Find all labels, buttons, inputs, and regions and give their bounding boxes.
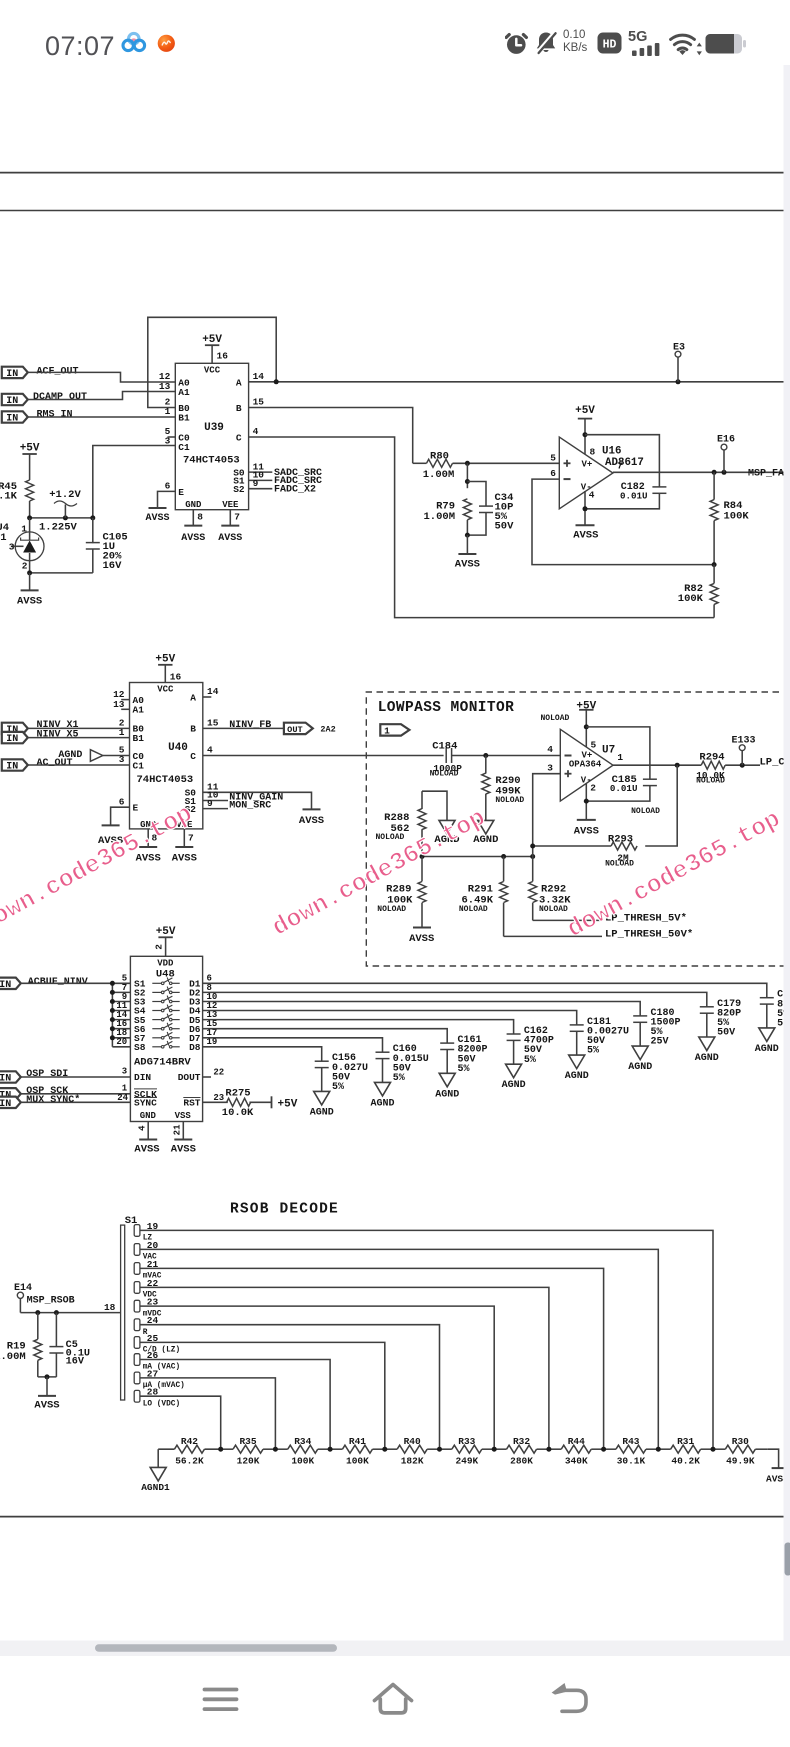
- status bar HD icon: [597, 32, 622, 54]
- svg-text:GND: GND: [140, 1111, 157, 1121]
- svg-text:1: 1: [0, 532, 6, 544]
- svg-text:13: 13: [113, 699, 125, 710]
- svg-text:15: 15: [253, 397, 265, 408]
- svg-text:+1.2V: +1.2V: [49, 489, 81, 501]
- svg-text:AVSS: AVSS: [299, 815, 324, 827]
- svg-text:LP_C: LP_C: [760, 756, 786, 768]
- svg-text:AGND: AGND: [565, 1071, 589, 1082]
- resistor R34: [275, 1448, 287, 1450]
- wire +5V to U48 pin 2 VDD: [165, 937, 167, 956]
- junction output to R293 feedback: [675, 763, 680, 768]
- svg-text:5%: 5%: [458, 1064, 470, 1075]
- vertical scrollbar: [785, 1543, 790, 1576]
- ground AGND below C181: [569, 1055, 585, 1069]
- status bar alarm icon: [505, 30, 529, 56]
- resistor R84: [713, 472, 715, 499]
- port IN RMS_IN: [2, 411, 28, 422]
- svg-text:30.1K: 30.1K: [617, 1455, 646, 1466]
- op IC U39 74HCT4053 body: [175, 363, 248, 509]
- svg-text:14: 14: [253, 371, 265, 382]
- svg-text:IN: IN: [0, 1074, 11, 1085]
- resistor R45: [26, 480, 34, 501]
- svg-text:RSOB DECODE: RSOB DECODE: [230, 1202, 339, 1218]
- connector S1 pin 27 µA (mVAC): [134, 1372, 140, 1384]
- svg-text:6: 6: [165, 480, 171, 491]
- ground AGND below C162: [506, 1064, 522, 1078]
- ground AVSS below R289: [413, 927, 431, 929]
- svg-text:20: 20: [116, 1037, 127, 1047]
- port IN AC_OUT: [2, 759, 28, 770]
- svg-text:74HCT4053: 74HCT4053: [137, 774, 194, 786]
- svg-text:B1: B1: [133, 733, 145, 744]
- junction divider node: [656, 1447, 661, 1452]
- switch IC U48 ADG714BRV body: [130, 956, 202, 1121]
- svg-text:25V: 25V: [651, 1037, 669, 1048]
- nav bar home icon: [372, 1681, 414, 1716]
- svg-text:9: 9: [253, 478, 259, 489]
- svg-text:+5V: +5V: [575, 405, 595, 417]
- svg-text:1: 1: [119, 727, 125, 738]
- capacitor C184: [445, 748, 447, 763]
- resistor R32: [494, 1448, 506, 1450]
- status bar time: [45, 31, 115, 62]
- test point E3: [676, 379, 681, 384]
- status bar orange app icon: [157, 34, 176, 53]
- junction divider node: [382, 1447, 387, 1452]
- horizontal scrollbar: [95, 1644, 337, 1651]
- pdf page right edge strip: [784, 65, 790, 1647]
- resistor R82: [713, 565, 715, 584]
- ground AVSS at U39 E: [149, 507, 167, 509]
- wire MUX_SYNC* to U48 pin 24 SYNC: [20, 1101, 131, 1103]
- connector S1 pin 23 mVDC: [134, 1300, 140, 1312]
- svg-text:3: 3: [122, 1067, 127, 1077]
- svg-text:2A2: 2A2: [320, 725, 335, 735]
- svg-text:49.9K: 49.9K: [726, 1455, 755, 1466]
- wire U40 pin 4 C output to lowpass monitor: [203, 755, 444, 757]
- svg-text:18: 18: [104, 1302, 116, 1313]
- junction output R84: [712, 470, 717, 475]
- svg-text:1.00M: 1.00M: [423, 511, 455, 523]
- U48 pin 22 DOUT stub: [203, 1076, 211, 1078]
- connector S1 pin 22 VDC: [134, 1282, 140, 1294]
- svg-text:A: A: [236, 377, 242, 388]
- resistor R31: [658, 1448, 670, 1450]
- wire U48 D output to C181: [203, 1011, 577, 1025]
- wire +5V to U7 pin 5: [585, 710, 587, 747]
- connector S1 body bar: [121, 1225, 125, 1400]
- port IN ACBUF_NINV: [0, 978, 21, 989]
- svg-text:LP_THRESH_50V*: LP_THRESH_50V*: [605, 928, 693, 940]
- port IN NINV_X5: [2, 732, 28, 743]
- junction divider node: [218, 1447, 223, 1452]
- svg-text:0.01U: 0.01U: [610, 783, 638, 794]
- svg-text:AVSS: AVSS: [171, 1144, 196, 1156]
- U39 pin 11 S0 stub and net SADC_SRC: [249, 471, 273, 473]
- wire S1 pin 19 to divider node: [140, 1230, 713, 1449]
- resistor R289: [421, 857, 423, 882]
- svg-text:NOLOAD: NOLOAD: [377, 905, 406, 914]
- svg-text:B: B: [236, 403, 242, 414]
- U39 pin 9 S2 stub and net FADC_X2: [249, 488, 273, 490]
- capacitor C105: [92, 518, 94, 543]
- schematic sheet inner border line: [0, 210, 784, 212]
- connector S1 pin 28 LO (VDC): [134, 1390, 140, 1402]
- wire U16 pin 4 V- to AVSS: [584, 491, 586, 525]
- wire net LP_THRESH_50V*: [504, 935, 602, 937]
- junction divider node: [328, 1447, 333, 1452]
- svg-text:U39: U39: [204, 422, 224, 434]
- svg-text:21: 21: [173, 1124, 183, 1135]
- svg-text:AVSS: AVSS: [455, 559, 480, 571]
- capacitor C156: [315, 1060, 329, 1062]
- status bar wifi icon: [668, 29, 704, 56]
- svg-text:R40: R40: [404, 1436, 421, 1447]
- S input bus vertical: [111, 983, 113, 1047]
- svg-text:R275: R275: [225, 1088, 250, 1100]
- svg-text:NOLOAD: NOLOAD: [459, 905, 488, 914]
- svg-text:5: 5: [591, 740, 597, 751]
- wire U48 D output to C160: [203, 1038, 383, 1052]
- op-amp U7 OPA364: [560, 729, 613, 801]
- ground AVSS below U4: [21, 589, 39, 591]
- wire U39 C output pin 4 to R82 bottom: [249, 437, 714, 618]
- wire U7 pin 3 + input: [533, 774, 561, 857]
- svg-text:AVSS: AVSS: [17, 595, 42, 607]
- svg-text:OUT: OUT: [287, 725, 302, 735]
- U40 pin 9 S2 net MON_SRC: [203, 808, 228, 810]
- svg-text:+5V: +5V: [202, 334, 222, 346]
- wire S1 pin 28 to divider node: [140, 1396, 221, 1449]
- svg-text:NOLOAD: NOLOAD: [375, 833, 404, 842]
- svg-text:9: 9: [207, 798, 213, 809]
- junction divider node: [711, 1447, 716, 1452]
- wire U48 pin 9 S3: [112, 1001, 130, 1003]
- svg-text:NOLOAD: NOLOAD: [541, 714, 570, 723]
- svg-text:R41: R41: [349, 1436, 366, 1447]
- svg-text:+5V: +5V: [156, 926, 176, 938]
- svg-text:8: 8: [197, 512, 203, 523]
- svg-text:R32: R32: [513, 1436, 530, 1447]
- wire +5V to R45: [29, 454, 31, 480]
- resistor R30: [713, 1448, 725, 1450]
- wire U39 A output pin 14 long net: [249, 381, 784, 383]
- ground AGND below C161: [439, 1073, 455, 1087]
- wire +5V to U39 pin 16: [211, 345, 213, 363]
- svg-text:AVSS: AVSS: [134, 1144, 159, 1156]
- wire U16 pin 6 - input feedback: [532, 479, 714, 564]
- wire S1 pin 25 to divider node: [140, 1342, 385, 1449]
- resistor R294: [701, 761, 725, 769]
- port IN OSP_SCK: [0, 1088, 21, 1099]
- svg-text:R42: R42: [181, 1436, 198, 1447]
- resistor R35: [221, 1448, 233, 1450]
- U40 pin 14 A stub: [203, 696, 211, 698]
- svg-text:AGND: AGND: [370, 1098, 394, 1109]
- wire R19 C5 to AVSS: [38, 1376, 57, 1378]
- wire S1 pin 21 to divider node: [140, 1268, 604, 1449]
- svg-text:4: 4: [253, 426, 259, 437]
- junction divider node: [273, 1447, 278, 1452]
- svg-text:2: 2: [590, 783, 596, 794]
- svg-text:6: 6: [119, 796, 125, 807]
- svg-text:AGND: AGND: [502, 1080, 526, 1091]
- capacitor C161: [440, 1042, 454, 1044]
- svg-text:U40: U40: [168, 742, 188, 754]
- svg-text:R35: R35: [239, 1436, 256, 1447]
- svg-text:AGND1: AGND1: [141, 1482, 170, 1493]
- svg-text:3: 3: [547, 763, 553, 774]
- svg-text:R33: R33: [458, 1436, 475, 1447]
- switch element S3-D3: [152, 1001, 161, 1003]
- svg-text:1.225V: 1.225V: [39, 522, 78, 534]
- schematic sheet bottom border line: [0, 1516, 784, 1518]
- svg-text:2: 2: [154, 944, 165, 950]
- svg-text:10.0K: 10.0K: [222, 1107, 254, 1119]
- junction R19: [35, 1310, 40, 1315]
- status bar network speed: [563, 29, 587, 54]
- svg-text:120K: 120K: [237, 1455, 260, 1466]
- svg-text:IN: IN: [6, 734, 18, 745]
- wire U48 D output to C180: [203, 1002, 641, 1016]
- switch element S2-D2: [152, 991, 161, 993]
- svg-text:40.2K: 40.2K: [671, 1455, 700, 1466]
- svg-text:VEE: VEE: [222, 500, 239, 510]
- svg-text:R34: R34: [294, 1436, 311, 1447]
- shunt reference U4 zener: [29, 518, 31, 540]
- svg-text:22: 22: [213, 1068, 224, 1078]
- svg-text:100K: 100K: [346, 1455, 369, 1466]
- junction R79 C34 bottom: [465, 533, 470, 538]
- svg-text:AVSS: AVSS: [34, 1400, 59, 1412]
- svg-text:16V: 16V: [103, 560, 123, 572]
- svg-text:OPA364: OPA364: [569, 760, 602, 770]
- svg-text:280K: 280K: [510, 1455, 533, 1466]
- ground AGND below C180: [632, 1046, 648, 1060]
- svg-text:4: 4: [547, 744, 553, 755]
- svg-text:1.00M: 1.00M: [0, 1351, 26, 1363]
- svg-text:V+: V+: [582, 750, 593, 760]
- capacitor C179: [700, 1006, 714, 1008]
- status bar 5G and signal bars: [628, 29, 647, 45]
- wire S1 pin 23 to divider node: [140, 1306, 494, 1449]
- svg-text:FADC_X2: FADC_X2: [274, 484, 316, 495]
- svg-text:GND: GND: [185, 500, 202, 510]
- ground AVSS at U40 S0: [303, 808, 321, 810]
- wire U48 pin 7 S2: [112, 991, 130, 993]
- svg-text:IN: IN: [0, 1099, 11, 1110]
- wire RMS_IN to U39 pin 1 B1: [28, 416, 176, 418]
- wire U48 pin 16 S6: [112, 1028, 130, 1030]
- junction C184 R290: [483, 753, 488, 758]
- ground AVSS below R19: [38, 1395, 56, 1397]
- svg-text:AVSS: AVSS: [574, 825, 599, 837]
- svg-text:R31: R31: [677, 1436, 694, 1447]
- junction A output to loop: [274, 379, 279, 384]
- svg-text:DOUT: DOUT: [178, 1072, 201, 1083]
- op-amp U16 AD8617: [559, 437, 613, 509]
- U39 pin 10 S1 stub and net FADC_SRC: [249, 479, 273, 481]
- switch element S5-D5: [152, 1019, 161, 1021]
- svg-text:R294: R294: [699, 751, 724, 763]
- capacitor C181: [570, 1024, 584, 1026]
- svg-text:U7: U7: [602, 745, 615, 757]
- port IN NINV_X1: [2, 723, 28, 734]
- status bar battery icon: [705, 33, 746, 55]
- resistor R41: [330, 1448, 342, 1450]
- svg-text:4: 4: [138, 1125, 148, 1131]
- svg-text:A: A: [190, 692, 196, 703]
- resistor R290: [485, 756, 487, 774]
- svg-text:NOLOAD: NOLOAD: [430, 770, 459, 779]
- wire U39 B output pin 15 to R80: [249, 408, 413, 464]
- svg-text:R44: R44: [568, 1436, 585, 1447]
- junction divider node: [437, 1447, 442, 1452]
- svg-text:B: B: [190, 724, 196, 735]
- wire U48 D output to C179: [203, 992, 707, 1006]
- wire U48 pin 18 S7: [112, 1037, 130, 1039]
- wire zener to AVSS and C105 bottom: [30, 572, 93, 574]
- svg-text:3: 3: [165, 435, 171, 446]
- svg-text:5%: 5%: [587, 1046, 599, 1057]
- svg-text:+5V: +5V: [20, 443, 40, 455]
- svg-text:MSP_FA: MSP_FA: [748, 469, 784, 480]
- capacitor C185 bypass loop: [586, 727, 650, 779]
- resistor R19: [37, 1313, 39, 1340]
- svg-text:NOLOAD: NOLOAD: [605, 859, 634, 868]
- wire U48 D output to C161: [203, 1029, 448, 1043]
- svg-text:4: 4: [207, 745, 213, 756]
- svg-text:1.00M: 1.00M: [423, 469, 455, 481]
- connector S1 pin 21 mVAC: [134, 1263, 140, 1275]
- resistor R44: [549, 1448, 561, 1450]
- switch element S6-D6: [152, 1028, 161, 1030]
- svg-text:3: 3: [119, 754, 125, 765]
- connector S1 pin 19 LZ: [134, 1225, 140, 1237]
- resistor R288: [422, 791, 447, 820]
- svg-text:3: 3: [9, 541, 15, 552]
- svg-text:NINV_FB: NINV_FB: [229, 720, 271, 731]
- svg-text:74HCT4053: 74HCT4053: [183, 455, 240, 467]
- svg-text:5%: 5%: [393, 1073, 405, 1084]
- svg-text:16: 16: [217, 351, 229, 362]
- svg-text:100K: 100K: [678, 593, 704, 605]
- wire threshold divider bus: [422, 856, 533, 858]
- test point E14: [17, 1292, 23, 1298]
- port IN DCAMP_OUT: [2, 394, 28, 405]
- power AGND arrow into U40 pin 5 C0: [90, 750, 102, 762]
- resistor R275: [227, 1098, 251, 1106]
- wire AC_OUT to U40 pin 3 C1: [28, 764, 130, 766]
- node 1.225V wire: [30, 517, 93, 519]
- svg-text:1: 1: [617, 752, 623, 763]
- wire U40 pin 15 B output NINV_FB: [203, 727, 284, 729]
- connector S1 pin 26 mA (VAC): [134, 1354, 140, 1366]
- lowpass monitor dashed box: [366, 692, 790, 966]
- svg-text:C1: C1: [133, 760, 145, 771]
- svg-text:AC_OUT: AC_OUT: [37, 758, 73, 769]
- svg-text:R43: R43: [622, 1436, 639, 1447]
- resistor R42: [158, 1448, 174, 1450]
- svg-text:IN: IN: [6, 414, 18, 425]
- svg-text:AVSS: AVSS: [573, 530, 598, 542]
- wire U48 pin 5 S1: [112, 982, 130, 984]
- svg-text:C: C: [236, 432, 242, 443]
- wire U7 pin 2 V- to AVSS: [585, 783, 587, 820]
- ground AGND below C156: [314, 1091, 330, 1105]
- port 1 sheet arrow: [380, 724, 409, 735]
- svg-text:14: 14: [207, 686, 219, 697]
- U40 pin 12 A0 stub: [121, 699, 129, 701]
- svg-text:AGND: AGND: [628, 1062, 652, 1073]
- svg-text:C: C: [190, 751, 196, 762]
- svg-text:+5V: +5V: [155, 654, 175, 666]
- wire R30 to AVSS: [768, 1449, 779, 1468]
- wire S1 pin 24 to divider node: [140, 1325, 440, 1450]
- switch element S8-D8: [152, 1046, 161, 1048]
- svg-text:182K: 182K: [401, 1455, 424, 1466]
- svg-text:0.01U: 0.01U: [620, 490, 648, 501]
- svg-text:R80: R80: [430, 451, 449, 463]
- ground AVSS below U16: [576, 524, 595, 526]
- connector S1 pin 24 R: [134, 1319, 140, 1331]
- wire U48 D output to C156: [203, 1047, 322, 1061]
- status bar muted bell icon: [533, 29, 559, 56]
- schematic sheet top border line: [0, 172, 784, 174]
- svg-text:50V: 50V: [495, 521, 515, 533]
- wire OSP_SCK to U48 pin 1 SCLK: [20, 1093, 131, 1095]
- resistor R80: [413, 462, 427, 464]
- svg-text:AVSS: AVSS: [145, 513, 169, 524]
- svg-text:LOWPASS MONITOR: LOWPASS MONITOR: [378, 700, 515, 716]
- svg-text:7: 7: [188, 833, 194, 844]
- svg-text:SYNC: SYNC: [134, 1098, 157, 1109]
- svg-text:5: 5: [550, 452, 556, 463]
- ground AVSS at U40 E: [102, 824, 120, 826]
- svg-text:MUX_SYNC*: MUX_SYNC*: [26, 1094, 80, 1106]
- svg-text:R30: R30: [732, 1436, 749, 1447]
- capacitor C162: [507, 1033, 521, 1035]
- wire U48 D output to C178: [203, 983, 767, 997]
- svg-text:NOLOAD: NOLOAD: [696, 777, 725, 786]
- svg-text:RST: RST: [183, 1098, 200, 1109]
- svg-text:AVSS: AVSS: [172, 853, 197, 865]
- svg-text:V+: V+: [582, 460, 593, 470]
- port IN MUX_SYNC*: [0, 1097, 21, 1108]
- svg-text:16: 16: [170, 672, 182, 683]
- svg-text:AGND: AGND: [695, 1053, 719, 1064]
- svg-text:OSP_SDI: OSP_SDI: [26, 1069, 68, 1080]
- capacitor C5: [55, 1313, 57, 1347]
- svg-text:+5V: +5V: [278, 1099, 298, 1111]
- wire +5V to U40 pin 16: [164, 665, 166, 683]
- svg-text:NOLOAD: NOLOAD: [539, 905, 568, 914]
- wire NINV_X5 to U40 pin 1 B1: [28, 737, 130, 739]
- wire R80 node down to R79: [466, 463, 468, 488]
- junction divider node: [601, 1447, 606, 1452]
- resistor R43: [604, 1448, 616, 1450]
- svg-text:E14: E14: [14, 1283, 32, 1294]
- power +5V sideways at R275: [271, 1096, 273, 1108]
- wire S1 pin 22 to divider node: [140, 1287, 549, 1449]
- wire NINV_X1 to U40 pin 2 B0: [28, 727, 130, 729]
- resistor R291: [503, 857, 505, 882]
- svg-text:HD: HD: [603, 39, 617, 52]
- svg-text:AVSS: AVSS: [181, 533, 205, 544]
- svg-text:DCAMP_OUT: DCAMP_OUT: [33, 392, 87, 403]
- svg-text:VCC: VCC: [204, 366, 221, 376]
- port IN ACF_OUT: [2, 367, 28, 378]
